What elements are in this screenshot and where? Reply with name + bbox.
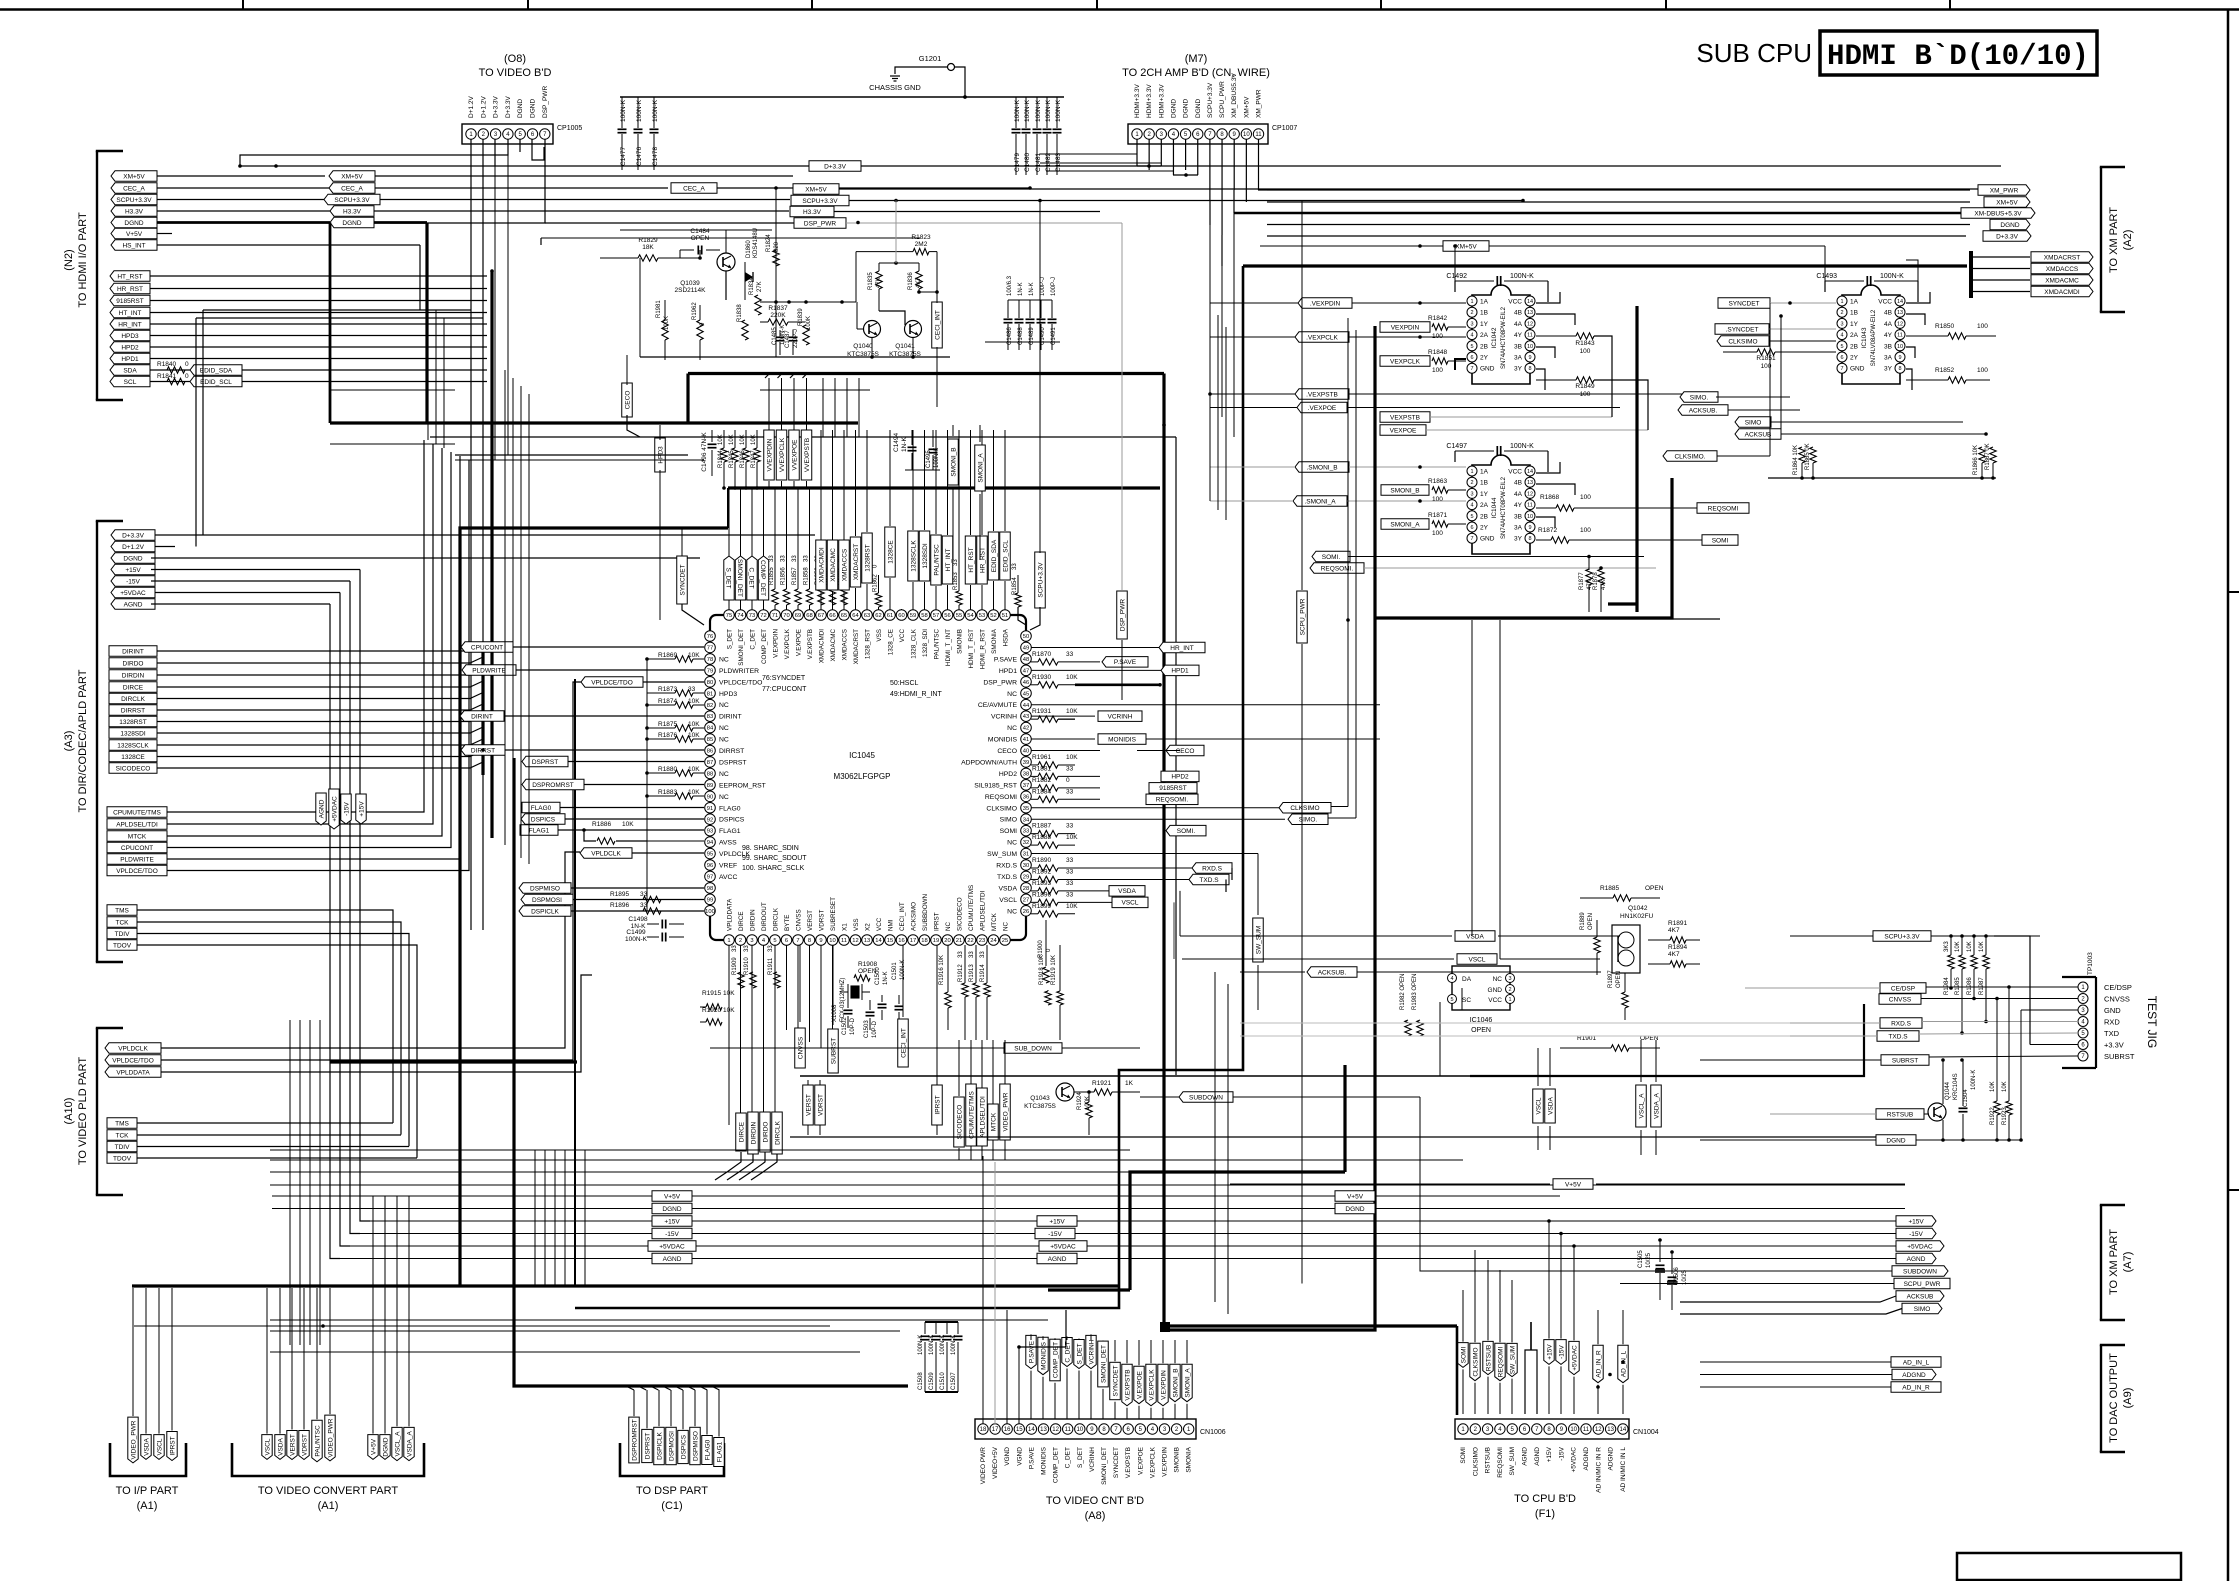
vertical tag AD_IN_R (above CN1004)	[1593, 1345, 1603, 1382]
svg-text:11: 11	[841, 938, 847, 944]
wire HPD1 to left bus	[150, 358, 487, 360]
connector CN1006 pin 11	[1063, 1424, 1073, 1434]
wire IC1045 top pin 68 vertical	[809, 609, 811, 610]
svg-text:NC: NC	[1003, 921, 1010, 931]
vertical tag SICODECO (below IC)	[954, 1097, 965, 1147]
vertical tag 1328SDI (above IC)	[919, 531, 930, 581]
svg-text:R1896: R1896	[1032, 891, 1052, 898]
net tag SICODECO (A3 dir)	[109, 763, 157, 774]
net tag -15V (rail mid2)	[1035, 1228, 1075, 1239]
net tag HT_INT (N2 group)	[110, 307, 150, 318]
svg-text:FLAG0: FLAG0	[531, 805, 552, 812]
bus vertical x577 down	[576, 1062, 578, 1180]
svg-text:49:HDMI_R_INT: 49:HDMI_R_INT	[890, 691, 942, 698]
svg-text:VEXPCLK: VEXPCLK	[1390, 358, 1421, 365]
wire VPLDDATA right/up	[161, 975, 592, 1072]
IC1045 pin 12 (bottom)	[850, 935, 861, 946]
svg-text:V+5V: V+5V	[126, 231, 143, 238]
wire AD_IN_R to A9	[1598, 1386, 1891, 1388]
wire VPLDCE/TDO riser	[167, 460, 469, 871]
wire CP1007 pin9 route	[1233, 190, 1235, 213]
connector CP1007 pin 2	[1144, 129, 1154, 139]
svg-text:D+3.3V: D+3.3V	[493, 95, 500, 118]
vertical tag FLAG0 (C1 DSP)	[702, 1436, 713, 1465]
op-amp IC1043 body	[1842, 285, 1900, 384]
wire DGND thick run	[157, 221, 330, 224]
svg-text:DIRCE: DIRCE	[738, 911, 745, 931]
svg-text:100P-J: 100P-J	[1040, 277, 1046, 296]
svg-text:R1885: R1885	[1600, 885, 1620, 892]
net tag D+3.3V (right edge)	[1983, 231, 2031, 241]
IC1045 pin 89 (left)	[705, 780, 716, 791]
svg-text:REQSOMI: REQSOMI	[985, 794, 1017, 801]
vertical tag XMDACMDI (above IC)	[816, 540, 827, 590]
svg-text:R1842: R1842	[1428, 315, 1448, 322]
vertical tag .VEXPSTB (above IC)	[801, 430, 812, 480]
svg-text:10K: 10K	[1990, 1081, 1996, 1092]
svg-text:+15V: +15V	[1049, 1218, 1065, 1225]
wire TDOV A10 to bundle	[137, 1157, 417, 1159]
connector CN1004 pin 9	[1556, 1424, 1566, 1434]
vertical tag SMONI_A (above CN1006)	[1182, 1364, 1192, 1401]
svg-text:+15V: +15V	[358, 801, 365, 817]
svg-text:11: 11	[1255, 132, 1262, 138]
svg-text:Q1041: Q1041	[895, 343, 915, 350]
wire CP1007 pin 1 down	[1136, 139, 1138, 166]
svg-text:C1508: C1508	[918, 1372, 924, 1390]
svg-text:V.EXPCLK: V.EXPCLK	[1148, 1369, 1155, 1401]
svg-text:15: 15	[887, 938, 893, 944]
svg-text:AGND: AGND	[1522, 1447, 1529, 1466]
svg-text:TO VIDEO B'D: TO VIDEO B'D	[479, 67, 552, 79]
svg-text:10K: 10K	[729, 434, 735, 445]
svg-text:+5VDAC: +5VDAC	[659, 1243, 685, 1250]
svg-text:62: 62	[875, 613, 881, 619]
svg-text:XMDACMC: XMDACMC	[830, 548, 837, 582]
svg-text:63: 63	[864, 613, 870, 619]
svg-text:SIMO: SIMO	[1745, 419, 1762, 426]
svg-text:CECO: CECO	[997, 748, 1017, 755]
svg-text:CHASSIS GND: CHASSIS GND	[869, 83, 921, 92]
IC1045 pin 8 (bottom)	[804, 935, 815, 946]
svg-text:31: 31	[1023, 852, 1029, 858]
svg-text:12: 12	[1595, 1427, 1602, 1433]
svg-text:SOMI: SOMI	[1460, 1447, 1467, 1464]
svg-text:8: 8	[808, 938, 811, 944]
IC1045 pin 24 (bottom)	[988, 935, 999, 946]
svg-text:5: 5	[773, 938, 776, 944]
svg-text:80: 80	[707, 680, 713, 686]
svg-text:MONIDIS: MONIDIS	[1108, 736, 1136, 743]
svg-text:93: 93	[707, 829, 713, 835]
vertical tag 1328RST (above IC)	[862, 533, 873, 583]
vertical tag EDID_SDA (above IC right)	[988, 532, 999, 580]
svg-text:D+3.3V: D+3.3V	[505, 95, 512, 118]
svg-text:R1867 0K: R1867 0K	[1985, 443, 1991, 470]
svg-text:28: 28	[1023, 886, 1029, 892]
capacitor C1486 100/6.3	[1007, 300, 1009, 318]
IC1045 pin 84 (left)	[705, 722, 716, 733]
net tag -15V (right edge A7)	[1896, 1228, 1936, 1239]
vertical tag +5VDAC	[329, 789, 339, 829]
svg-text:TP1003: TP1003	[2087, 952, 2094, 975]
svg-text:SMONIA: SMONIA	[1186, 1446, 1193, 1472]
net tag TMS (A10 jtag)	[107, 1118, 137, 1129]
svg-text:AD_IN_L: AD_IN_L	[1620, 1350, 1627, 1377]
connector CP1007 body	[1128, 124, 1268, 144]
vertical tag S_DET (above CN1006)	[1074, 1340, 1084, 1369]
svg-text:R1920 10K: R1920 10K	[702, 1007, 735, 1014]
connector CN1006 pin 15	[1014, 1424, 1024, 1434]
wire y1076 long	[800, 1075, 1470, 1077]
svg-text:100N-K: 100N-K	[951, 1335, 957, 1355]
net tag VSCL (mid)	[1457, 954, 1497, 964]
svg-text:R1864 10K: R1864 10K	[1793, 445, 1799, 475]
svg-text:57: 57	[933, 613, 939, 619]
svg-text:CLKSIMO: CLKSIMO	[1472, 1347, 1479, 1376]
bus vertical x1176 y437 down	[1175, 437, 1177, 1075]
IC1045 pin 77 (left)	[705, 642, 716, 653]
wire CP1007 left links	[1040, 153, 1137, 155]
vertical tag VSDA (below)	[1545, 1089, 1556, 1123]
svg-text:3Y: 3Y	[1514, 536, 1523, 543]
svg-text:16: 16	[898, 938, 904, 944]
net tag DGND (A3 power)	[111, 553, 155, 563]
IC1045 pin 41 (right)	[1021, 734, 1032, 745]
svg-text:V.EXPOE: V.EXPOE	[1137, 1446, 1144, 1475]
svg-text:SDA: SDA	[123, 367, 137, 374]
connector CP1005 pin 4	[503, 129, 513, 139]
wire vertical x1770 SYNC bundle	[1769, 303, 1771, 456]
svg-text:VVEXPOE: VVEXPOE	[791, 439, 798, 471]
svg-text:DIRDIN: DIRDIN	[750, 1122, 757, 1145]
svg-text:R1930: R1930	[1032, 674, 1052, 681]
net tag RXD.S (IC right)	[1075, 867, 1192, 869]
connector CN1006 pin 12	[1050, 1424, 1060, 1434]
svg-text:DSP_PWR: DSP_PWR	[804, 220, 836, 227]
svg-text:SMONI_A: SMONI_A	[1390, 521, 1420, 528]
wire CP1005 pin2 down	[482, 139, 484, 930]
wire CLKSIMO vertical link	[1347, 318, 1349, 807]
connector group (A10) TO VIDEO PLD PART bracket	[96, 1028, 98, 1195]
svg-text:100N-K: 100N-K	[918, 1335, 924, 1355]
svg-text:SIMO.: SIMO.	[1690, 394, 1709, 401]
IC1045 pin 15 (bottom)	[885, 935, 896, 946]
net tag D+3.3V (A3 power)	[111, 530, 155, 540]
svg-text:100N-K: 100N-K	[636, 99, 643, 122]
wire CP1005 pin6 down	[532, 139, 544, 160]
IC1045 pin 33 (right)	[1021, 825, 1032, 836]
svg-text:VCC: VCC	[1488, 997, 1502, 1004]
svg-text:R1837: R1837	[768, 305, 788, 312]
svg-text:R1912: R1912	[958, 964, 964, 982]
svg-text:1328_CE: 1328_CE	[888, 629, 895, 655]
svg-text:HN1K02FU: HN1K02FU	[1620, 913, 1654, 920]
svg-text:PAL/NTSC: PAL/NTSC	[314, 1425, 321, 1457]
svg-text:CECO: CECO	[1176, 748, 1195, 755]
svg-text:EEPROM_RST: EEPROM_RST	[719, 782, 766, 789]
svg-text:11: 11	[1065, 1427, 1072, 1433]
wire IC1045 top pin 51 vertical	[1004, 609, 1006, 610]
wire rail -15V bottom	[360, 1233, 1905, 1235]
svg-text:VSCL: VSCL	[1122, 900, 1139, 907]
svg-text:1: 1	[1470, 299, 1473, 305]
svg-text:4A: 4A	[1514, 321, 1523, 328]
connector CN1006 body	[975, 1419, 1196, 1439]
wire IC1043 vcc top	[1906, 260, 1918, 281]
svg-text:R1857: R1857	[792, 567, 798, 585]
vertical tag VSDA (A1 VC)	[275, 1435, 285, 1460]
wire CN1004 pin6/7 up	[1525, 1350, 1537, 1414]
svg-text:VCRINH: VCRINH	[991, 714, 1017, 721]
svg-text:NC: NC	[719, 794, 729, 801]
svg-text:SMONI_B: SMONI_B	[950, 447, 957, 476]
svg-text:VCC: VCC	[1508, 299, 1522, 306]
svg-text:S_DET: S_DET	[1077, 1447, 1084, 1468]
connector CN1004 body	[1455, 1419, 1629, 1439]
vertical tag VDRST (A1 VC)	[299, 1431, 309, 1460]
svg-text:HPD3: HPD3	[121, 333, 139, 340]
wire AGND run	[151, 603, 330, 605]
wire 1328SDI to bus	[157, 727, 483, 733]
svg-text:SMONI_B: SMONI_B	[1172, 1368, 1179, 1397]
svg-text:4B: 4B	[1514, 480, 1522, 487]
svg-text:RSTSUB: RSTSUB	[1887, 1111, 1913, 1118]
svg-text:-15V: -15V	[665, 1231, 679, 1238]
svg-text:DSPICS: DSPICS	[719, 817, 745, 824]
wire IC1045 top pin 52 vertical	[993, 609, 995, 610]
wire CN1004 sig verticals upper	[1462, 1290, 1464, 1310]
net tag CLKSIMO (IC right)	[1031, 807, 1280, 809]
svg-text:XMDACRST: XMDACRST	[2044, 254, 2081, 261]
svg-text:CEC_A: CEC_A	[683, 185, 705, 192]
svg-text:C1485: C1485	[772, 327, 778, 345]
bus thick bottom S path	[1048, 1288, 1130, 1291]
vertical tag DSPMOSI (C1 DSP)	[666, 1427, 677, 1464]
svg-text:R1880: R1880	[658, 766, 678, 773]
connector CP1007 pin 9	[1229, 129, 1239, 139]
svg-text:33: 33	[1066, 651, 1074, 658]
wire pins6-10 down stubs	[786, 946, 788, 1031]
transistor Q1041 KTC3875S	[905, 321, 922, 338]
connector CP1007 pin 7	[1205, 129, 1215, 139]
svg-text:18: 18	[921, 938, 927, 944]
svg-text:RSTSUB: RSTSUB	[1485, 1345, 1492, 1371]
svg-text:33: 33	[744, 945, 750, 952]
svg-text:C1501: C1501	[892, 962, 898, 980]
svg-text:V.EXPSTB: V.EXPSTB	[807, 629, 814, 659]
svg-text:APLDSEL/TDI: APLDSEL/TDI	[116, 821, 158, 828]
wire MTCK riser	[167, 448, 442, 836]
svg-text:P.SAVE: P.SAVE	[994, 656, 1018, 663]
net tag CEC_A (column 2)	[329, 183, 375, 193]
net tag HR_INT (IC right)	[1031, 646, 1159, 648]
svg-text:CN1006: CN1006	[1200, 1429, 1226, 1436]
svg-text:39: 39	[1023, 760, 1029, 766]
svg-text:40: 40	[1023, 749, 1029, 755]
svg-text:(M7): (M7)	[1185, 53, 1208, 65]
svg-text:33: 33	[1023, 829, 1029, 835]
svg-text:DSPMOSI: DSPMOSI	[668, 1431, 675, 1461]
svg-text:R1862: R1862	[873, 574, 879, 592]
bracket TO DAC OUTPUT (A9)	[2100, 1345, 2102, 1452]
IC1045 pin 53 (top)	[977, 610, 988, 621]
svg-text:13: 13	[864, 938, 870, 944]
connector CN1004 pin 4	[1495, 1424, 1505, 1434]
net tag H3.3V (N2 group)	[111, 206, 157, 216]
svg-text:ADGND: ADGND	[1583, 1447, 1590, 1471]
svg-text:Q1042: Q1042	[1628, 905, 1648, 912]
vertical tag C_DET (above IC)	[747, 556, 757, 600]
svg-text:TO I/P PART: TO I/P PART	[116, 1485, 179, 1497]
vertical tag MONIDIS (above CN1006)	[1038, 1337, 1048, 1374]
wire IC1045 top pin 55 vertical	[958, 609, 960, 610]
svg-text:1328_SDI: 1328_SDI	[922, 629, 929, 657]
svg-text:.VEXPCLK: .VEXPCLK	[1306, 334, 1338, 341]
net tag DIRCLK (A3 dir)	[109, 693, 157, 704]
net tag XM-DBUS+5.3V (right edge)	[1961, 208, 2035, 218]
net tag +15V (rail mid)	[652, 1216, 692, 1226]
svg-text:4A: 4A	[1884, 321, 1893, 328]
wire .VEXPOE left ext	[1210, 407, 1297, 409]
wire HPD3 to left bus	[150, 335, 487, 337]
svg-text:CPUCONT: CPUCONT	[471, 644, 503, 651]
capacitor C1477 100N-K	[621, 97, 623, 128]
connector CP1005 pin 2	[478, 129, 488, 139]
svg-text:SMONI_A: SMONI_A	[1184, 1368, 1191, 1398]
svg-text:VCRINH: VCRINH	[1108, 713, 1133, 720]
wire IC1045 top pin 71 vertical	[774, 609, 776, 610]
svg-text:DSPICLK: DSPICLK	[531, 908, 559, 915]
resistor R1981 100K	[662, 320, 668, 340]
wire IC1045 top pin 58 vertical	[924, 609, 926, 610]
svg-text:HPD1: HPD1	[1171, 668, 1189, 675]
svg-text:100K: 100K	[806, 316, 812, 330]
svg-text:IC1043: IC1043	[1861, 327, 1868, 348]
svg-text:R1863: R1863	[1428, 478, 1448, 485]
svg-text:R1839: R1839	[798, 308, 804, 326]
svg-text:0: 0	[1066, 777, 1070, 784]
wire H3.3V mid	[834, 211, 1100, 213]
net tag CECO (IC right)	[1031, 750, 1100, 752]
svg-text:1N-K: 1N-K	[883, 971, 889, 985]
vertical tag DSPICS (C1 DSP)	[678, 1430, 689, 1463]
svg-text:12: 12	[1897, 321, 1903, 327]
svg-text:TDIV: TDIV	[115, 1144, 130, 1151]
wire CP1007 pin 5 down	[1185, 139, 1187, 170]
IC1045 pin 72 (top)	[758, 610, 769, 621]
svg-text:CECO: CECO	[624, 391, 631, 410]
svg-text:DSP_PWR: DSP_PWR	[983, 679, 1017, 686]
svg-text:CPUMUTE/TMS: CPUMUTE/TMS	[968, 885, 975, 931]
connector CP1007 pin 10	[1241, 129, 1251, 139]
svg-text:X1: X1	[842, 923, 849, 931]
net tag AD_IN_L (right edge A9)	[1891, 1357, 1941, 1368]
wire DSP bundle joins	[628, 1387, 634, 1390]
wire bus entry verticals left	[768, 378, 770, 430]
svg-text:SW_SUM: SW_SUM	[1255, 926, 1262, 955]
svg-text:SCL: SCL	[124, 379, 137, 386]
net tag CPUCONT (IC left)	[461, 642, 513, 652]
svg-text:HPD2: HPD2	[1171, 774, 1189, 781]
svg-text:85: 85	[707, 737, 713, 743]
svg-text:100N-K: 100N-K	[1510, 273, 1534, 280]
bus corner x688 y373 to y423	[686, 374, 689, 424]
svg-text:DSPICS: DSPICS	[680, 1434, 687, 1459]
svg-text:12: 12	[1527, 491, 1533, 497]
net tag SUB_DOWN	[1004, 1043, 1062, 1053]
svg-text:CECI_INT: CECI_INT	[899, 902, 906, 931]
wire CP1007 pin 6 down	[1197, 139, 1199, 175]
svg-text:APLDSEL/TDI: APLDSEL/TDI	[980, 891, 987, 931]
svg-text:D+3.3V: D+3.3V	[1996, 233, 2019, 240]
svg-text:VPLDCE/TDO: VPLDCE/TDO	[719, 679, 762, 686]
svg-text:6: 6	[1470, 525, 1473, 531]
connector CN1006 pin 1	[1184, 1424, 1194, 1434]
svg-text:9: 9	[819, 938, 822, 944]
svg-text:100N-K: 100N-K	[929, 1335, 935, 1355]
wire x1234 segment down	[1233, 213, 1235, 437]
svg-text:4A: 4A	[1514, 491, 1523, 498]
bus bar XMDAC	[1969, 251, 1973, 298]
wire IC1044 pin13 loop	[1536, 462, 1560, 473]
svg-text:VCRINH: VCRINH	[1089, 1447, 1096, 1472]
border zone tick 6	[1665, 0, 1667, 10]
svg-text:SCPU+3.3V: SCPU+3.3V	[1207, 82, 1214, 118]
svg-text:DIRINT: DIRINT	[122, 648, 144, 655]
wire long vertical x508	[507, 155, 509, 455]
svg-text:XM+5V: XM+5V	[1996, 199, 2018, 206]
svg-text:CNVSS: CNVSS	[2104, 995, 2130, 1004]
vertical tag SYNCDET (above CN1006)	[1110, 1362, 1121, 1399]
svg-text:DSPROMRST: DSPROMRST	[631, 1419, 638, 1461]
svg-text:2A: 2A	[1480, 332, 1489, 339]
connector CN1004 pin 14	[1618, 1424, 1628, 1434]
svg-text:87: 87	[707, 760, 713, 766]
wire CP1007 pin 8 down	[1221, 139, 1223, 235]
wire y612 thin	[1400, 618, 1720, 620]
svg-text:220K: 220K	[770, 312, 786, 319]
svg-text:XM+5V: XM+5V	[1243, 96, 1250, 118]
svg-text:24: 24	[990, 938, 997, 944]
svg-text:67: 67	[818, 613, 824, 619]
svg-text:R1983 OPEN: R1983 OPEN	[1412, 974, 1418, 1010]
junction dots rails	[1547, 1219, 1551, 1223]
svg-text:XM+5V: XM+5V	[123, 173, 145, 180]
svg-text:2: 2	[1470, 480, 1473, 486]
svg-text:SW_SUM: SW_SUM	[1509, 1346, 1516, 1375]
svg-text:SUBRESET: SUBRESET	[830, 897, 837, 931]
net tag ADGND (right edge A9)	[1892, 1369, 1936, 1380]
svg-text:R1834: R1834	[749, 277, 755, 295]
svg-text:81: 81	[707, 691, 713, 697]
svg-text:100: 100	[1432, 530, 1443, 537]
svg-text:ACKSUB: ACKSUB	[1907, 1293, 1934, 1300]
svg-text:+5VDAC: +5VDAC	[1050, 1243, 1076, 1250]
svg-text:8: 8	[1528, 366, 1531, 372]
svg-text:95: 95	[707, 852, 713, 858]
svg-text:SN74AHCT08PW-EIL2: SN74AHCT08PW-EIL2	[1501, 476, 1507, 539]
svg-text:45: 45	[1023, 691, 1029, 697]
svg-text:NMI: NMI	[888, 919, 895, 931]
net tag DSPICS (IC left)	[521, 814, 565, 824]
IC1045 pin 50 (right)	[1021, 631, 1032, 642]
svg-text:100N-K: 100N-K	[1510, 443, 1534, 450]
svg-text:D+1.2V: D+1.2V	[468, 95, 475, 118]
wire DIRDIN to bus	[157, 669, 483, 675]
transistor Q1044 KRC104S	[1928, 1103, 1946, 1121]
wire CP1007 pin 7 down	[1209, 139, 1211, 200]
